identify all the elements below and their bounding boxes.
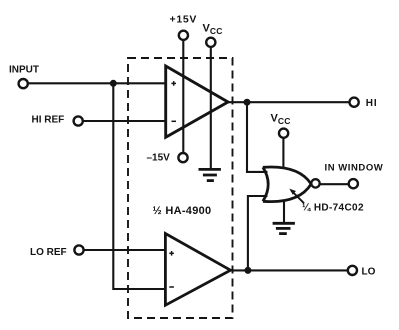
terminal -15V [178, 153, 187, 162]
terminal HI REF [74, 116, 83, 125]
terminal HI [350, 98, 359, 107]
ground (U2) [273, 223, 295, 233]
svg-text:+15V: +15V [170, 14, 198, 26]
wire node A to U1a + input [113, 82, 166, 84]
op-amp U1b (lower comparator) [165, 234, 230, 306]
svg-text:½ HA-4900: ½ HA-4900 [153, 205, 212, 217]
ground (U1) [199, 169, 221, 180]
node C (LO junction dot) [244, 267, 251, 274]
node A (junction dot) [110, 80, 117, 87]
leader arrow to U2 [291, 190, 304, 203]
dashed box (1/2 HA-4900 package outline) [128, 58, 233, 318]
bubble (U2 output inversion) [311, 179, 319, 187]
wire node A down to U1b - input [113, 83, 165, 289]
svg-text:HI REF: HI REF [32, 115, 65, 126]
svg-text:–15V: –15V [147, 153, 171, 164]
pin + (U1a) [171, 81, 176, 86]
svg-text:INPUT: INPUT [9, 65, 39, 76]
svg-text:HI: HI [366, 98, 378, 109]
terminal VCC (top) [206, 38, 215, 47]
terminal VCC (NOR) [279, 129, 288, 138]
wire INPUT to node A [28, 82, 113, 84]
wire HI REF to U1a - input [83, 120, 166, 122]
wire U2 output to IN WINDOW [321, 183, 349, 185]
wire U1a output to HI [228, 101, 350, 103]
pin - (U1b) [169, 286, 174, 288]
nor gate U2 [263, 167, 311, 202]
wire VCC to U2 top [282, 139, 284, 169]
svg-text:LO: LO [362, 267, 376, 278]
svg-text:¼ HD-74C02: ¼ HD-74C02 [302, 203, 364, 214]
terminal +15V [179, 31, 188, 40]
svg-text:LO REF: LO REF [30, 247, 67, 258]
terminal LO REF [74, 245, 83, 254]
pin - (U1a) [172, 120, 177, 122]
node B (HI junction dot) [244, 99, 251, 106]
wire node C to U2 bottom input [248, 196, 268, 270]
terminal IN WINDOW [349, 179, 358, 188]
wire VCC to U1 GND/ground [210, 48, 212, 169]
terminal INPUT [19, 79, 28, 88]
wire node B to U2 top input [247, 102, 268, 172]
wire U1b output to LO [231, 269, 348, 271]
op-amp U1a (upper comparator) [166, 66, 228, 137]
pin + (U1b) [169, 251, 174, 256]
wire +15V to U1a V+ pin (through to V- pin) [182, 41, 184, 153]
wire U2 ground [283, 200, 285, 223]
terminal LO [348, 266, 357, 275]
wire LO REF to U1b + input [84, 249, 165, 251]
svg-text:IN WINDOW: IN WINDOW [325, 163, 384, 174]
